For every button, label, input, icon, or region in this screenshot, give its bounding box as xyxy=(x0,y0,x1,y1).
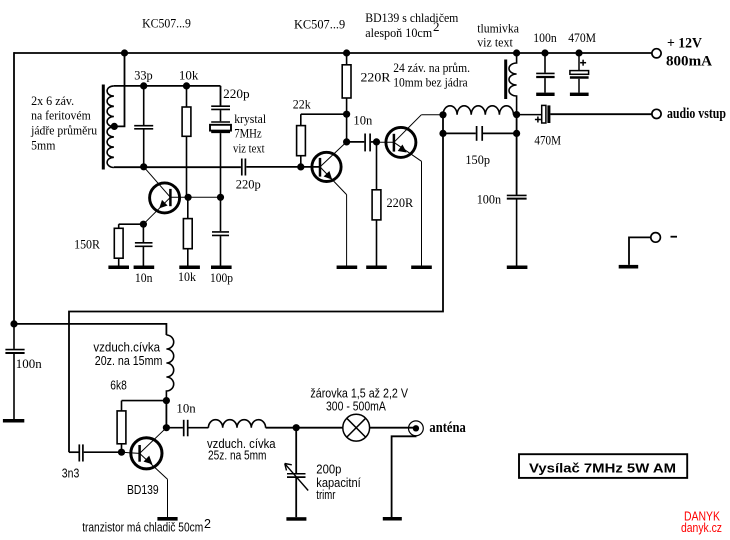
trimmer 200p xyxy=(285,428,309,518)
node top rail / choke xyxy=(513,49,520,56)
capacitor 10n (emitter bypass) xyxy=(135,224,153,265)
node 33p top xyxy=(140,82,147,89)
svg-text:220p: 220p xyxy=(223,86,250,101)
wire coil to lamp node xyxy=(266,427,343,429)
svg-text:10mm bez jádra: 10mm bez jádra xyxy=(393,74,468,89)
resistor 10k (upper) xyxy=(182,86,191,197)
inductor 20z air coil xyxy=(166,335,173,401)
node transformer center tap xyxy=(111,123,118,130)
svg-text:10n: 10n xyxy=(135,270,153,285)
svg-text:10n: 10n xyxy=(176,401,196,416)
wire top rail xyxy=(14,52,652,54)
svg-text:tlumivka: tlumivka xyxy=(477,20,519,35)
svg-text:470M: 470M xyxy=(534,132,561,147)
capacitor 220p (coupling) xyxy=(242,159,246,176)
node 150p right xyxy=(513,130,520,137)
node choke bottom / audio xyxy=(513,111,520,118)
antenna connector xyxy=(392,421,424,517)
ground 470M supply xyxy=(570,93,589,96)
svg-text:KC507...9: KC507...9 xyxy=(294,17,345,32)
ground 220R xyxy=(366,266,387,270)
capacitor 470M electrolytic (audio in) xyxy=(517,105,652,123)
terminal +12V xyxy=(652,49,661,58)
svg-text:2: 2 xyxy=(204,517,211,531)
ground 100p xyxy=(211,266,232,270)
resistor 220R (Q2 collector) xyxy=(342,53,351,142)
svg-text:10n: 10n xyxy=(353,113,372,128)
resistor 22k xyxy=(297,114,347,167)
svg-text:6k8: 6k8 xyxy=(110,378,127,392)
node top rail / transformer tap xyxy=(121,49,128,56)
svg-text:+ 12V: + 12V xyxy=(667,36,702,52)
svg-text:100p: 100p xyxy=(210,270,233,285)
svg-text:audio vstup: audio vstup xyxy=(667,106,726,122)
node top rail / 220R xyxy=(343,49,350,56)
svg-text:10k: 10k xyxy=(178,269,196,284)
transformer T1 winding xyxy=(107,86,114,168)
svg-text:150R: 150R xyxy=(74,237,100,252)
node 10k top xyxy=(183,82,190,89)
svg-text:800mA: 800mA xyxy=(666,54,712,70)
ground Q2 emitter xyxy=(337,266,358,270)
ground trimmer xyxy=(286,517,306,521)
wire bottom supply row xyxy=(14,324,166,335)
svg-text:viz text: viz text xyxy=(233,140,265,155)
node Q4 collector xyxy=(163,424,170,431)
wire oscillator bottom row y=167 xyxy=(114,166,320,168)
svg-text:470M: 470M xyxy=(568,30,596,45)
wire oscillator top row y=86 xyxy=(114,86,221,106)
node Q1 base / 10k xyxy=(185,194,192,201)
wire left rail xyxy=(13,52,15,324)
capacitor 150p xyxy=(443,126,517,141)
ground antenna xyxy=(383,517,402,521)
node left rail bottom xyxy=(10,320,17,327)
capacitor 220p (crystal series) xyxy=(211,106,230,121)
resistor 150R xyxy=(114,224,143,265)
capacitor 3n3 xyxy=(69,444,122,461)
svg-text:tranzistor má chladič 50cm: tranzistor má chladič 50cm xyxy=(82,521,203,535)
inductor choke tlumivka xyxy=(509,53,517,115)
svg-text:7MHz: 7MHz xyxy=(234,126,262,141)
lamp žárovka xyxy=(343,414,413,441)
svg-text:3n3: 3n3 xyxy=(62,467,80,481)
svg-text:5mm: 5mm xyxy=(31,137,55,152)
title box xyxy=(519,454,687,478)
capacitor 100n (supply) xyxy=(536,53,554,93)
svg-text:BD139 s chladičem: BD139 s chladičem xyxy=(365,10,458,25)
choke core xyxy=(504,60,507,100)
wire tank left drop xyxy=(442,115,444,134)
capacitor 470M electrolytic (supply) xyxy=(570,53,589,93)
inductor 25z air coil xyxy=(208,420,265,428)
node tank left bottom xyxy=(439,130,446,137)
capacitor 100p xyxy=(212,197,229,265)
ground Q3 emitter xyxy=(411,266,432,270)
svg-text:trimr: trimr xyxy=(316,488,335,502)
svg-text:220R: 220R xyxy=(387,195,414,210)
node Q2 collector / 10n xyxy=(343,138,350,145)
ground Q4 emitter xyxy=(157,517,177,521)
svg-text:Vysílač 7MHz 5W AM: Vysílač 7MHz 5W AM xyxy=(529,461,676,475)
ground 150R xyxy=(108,266,129,270)
transistor Q3 BD139 driver xyxy=(377,115,444,266)
node top rail / 100n xyxy=(541,49,548,56)
node Q1 emitter xyxy=(140,221,147,228)
svg-text:anténa: anténa xyxy=(429,420,466,436)
node Q2 base xyxy=(297,163,304,170)
svg-text:vzduch.cívka: vzduch.cívka xyxy=(93,340,160,354)
svg-text:100n: 100n xyxy=(533,30,557,45)
svg-text:10k: 10k xyxy=(179,68,199,83)
node 220R/22k xyxy=(343,111,350,118)
capacitor 10n (output coupling) xyxy=(166,420,208,437)
svg-text:na feritovém: na feritovém xyxy=(31,107,91,122)
wire choke node drop xyxy=(516,115,518,195)
resistor 10k (lower) xyxy=(183,197,192,265)
wire coil to collector node xyxy=(165,401,167,428)
ground negative terminal xyxy=(619,265,639,269)
wire feedback drop xyxy=(69,133,443,452)
svg-text:22k: 22k xyxy=(293,97,311,112)
svg-text:BD139: BD139 xyxy=(127,483,159,497)
node Q1 base / 100p xyxy=(217,194,224,201)
wire Vcc feed to transformer tap xyxy=(114,53,124,126)
svg-text:20z. na 15mm: 20z. na 15mm xyxy=(95,354,163,368)
node trimmer xyxy=(293,424,300,431)
capacitor 33p xyxy=(134,86,153,167)
transistor Q2 KC507 xyxy=(312,142,347,266)
node coil / 6k8 xyxy=(163,397,170,404)
svg-text:viz text: viz text xyxy=(477,34,513,49)
svg-text:jádře průměru: jádře průměru xyxy=(30,123,97,138)
crystal 7MHz xyxy=(210,122,231,197)
node top rail / 470M xyxy=(575,49,582,56)
svg-text:33p: 33p xyxy=(134,68,153,83)
node tank left top xyxy=(439,111,446,118)
capacitor 100n (RF bypass right) xyxy=(507,195,527,265)
node Q3 base xyxy=(373,138,380,145)
svg-text:krystal: krystal xyxy=(234,111,266,126)
capacitor 10n (interstage) xyxy=(347,134,377,152)
ground 10n bypass xyxy=(134,266,155,270)
transistor Q1 KC507 xyxy=(143,167,220,224)
node Q4 base xyxy=(118,449,125,456)
svg-text:300 - 500mA: 300 - 500mA xyxy=(326,399,386,413)
terminal audio vstup xyxy=(652,109,661,118)
resistor 6k8 xyxy=(117,401,166,453)
svg-text:2x 6 záv.: 2x 6 záv. xyxy=(31,93,74,108)
transformer T1 core xyxy=(102,85,105,170)
ground 100n bottom left xyxy=(3,419,24,423)
svg-text:150p: 150p xyxy=(465,152,490,167)
svg-text:2: 2 xyxy=(433,19,440,34)
ground 100n right xyxy=(507,266,528,270)
svg-text:100n: 100n xyxy=(16,356,42,371)
svg-text:100n: 100n xyxy=(477,191,502,206)
capacitor 100n (bottom left) xyxy=(5,324,24,419)
node 33p bottom / Q1 collector xyxy=(140,163,147,170)
resistor 220R (Q3 base) xyxy=(372,142,381,266)
svg-text:25z. na 5mm: 25z. na 5mm xyxy=(208,448,267,462)
svg-text:KC507...9: KC507...9 xyxy=(142,15,191,30)
terminal ground minus xyxy=(629,233,677,265)
svg-text:220R: 220R xyxy=(361,70,391,85)
svg-text:danyk.cz: danyk.cz xyxy=(681,521,722,535)
svg-text:220p: 220p xyxy=(236,176,261,191)
svg-text:alespoň 10cm: alespoň 10cm xyxy=(365,25,432,40)
ground 10k xyxy=(179,266,200,270)
inductor L 24z tank coil xyxy=(443,106,514,115)
transistor Q4 BD139 PA xyxy=(122,428,168,517)
ground 100n supply xyxy=(536,93,554,96)
svg-text:200p: 200p xyxy=(316,463,341,477)
svg-text:24 záv. na prům.: 24 záv. na prům. xyxy=(393,60,470,75)
